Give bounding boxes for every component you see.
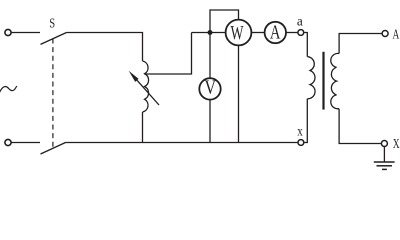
switch link dashed [52,39,54,149]
svg-text:x: x [297,125,303,140]
wire rail to W [192,32,226,34]
terminal bottom-left [5,139,11,145]
ammeter A [265,22,286,43]
transformer secondary winding [331,53,339,108]
terminal a [298,30,304,36]
terminal X [381,141,387,147]
voltmeter V [199,78,220,99]
variac arrow [137,80,160,105]
wire W to A [251,32,264,34]
wire variac tap [145,33,192,75]
svg-text:X: X [393,136,400,151]
switch S blade top [41,33,67,45]
svg-text:W: W [231,22,244,44]
svg-text:S: S [49,16,55,31]
wattmeter W [226,20,252,46]
wire [11,142,40,144]
wire to primary winding [304,33,308,57]
wire top rail [67,33,143,62]
node junction dot [208,30,213,35]
wire secondary top lead [339,34,382,54]
wire voltmeter drop [209,33,211,79]
ac source symbol ~ [0,86,17,93]
terminal top-left [5,29,11,35]
transformer primary winding [307,57,315,99]
wire [11,32,40,34]
wire wattmeter to bottom rail [238,45,240,142]
terminal x [298,140,304,146]
variac T winding [143,61,149,112]
switch S blade bottom [41,143,66,155]
svg-text:a: a [297,13,303,28]
svg-text:V: V [205,77,217,98]
wire wattmeter voltage loop [210,10,239,33]
wire secondary bottom lead [339,109,381,144]
ground [383,147,385,163]
transformer core [322,52,324,110]
wire primary bottom lead [304,99,308,143]
svg-text:A: A [270,23,281,44]
terminal A [382,31,388,37]
wire A to terminal a [286,32,298,34]
svg-text:A: A [393,26,400,41]
wire voltmeter to bottom rail [209,100,211,143]
wire bottom rail [66,142,299,144]
wire variac bottom lead [142,112,144,143]
